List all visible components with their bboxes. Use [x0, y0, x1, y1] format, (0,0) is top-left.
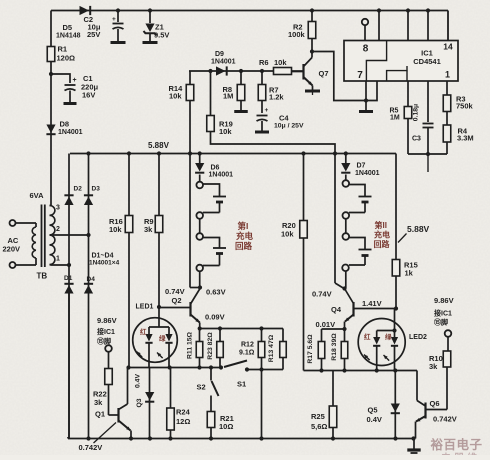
svg-text:R17 5.6Ω: R17 5.6Ω	[307, 334, 314, 364]
svg-text:9.1Ω: 9.1Ω	[239, 350, 255, 357]
svg-text:接IC1: 接IC1	[97, 327, 115, 336]
svg-text:D9: D9	[215, 51, 224, 58]
svg-text:充电: 充电	[236, 231, 254, 241]
svg-text:1N4001: 1N4001	[355, 170, 380, 177]
svg-text:1N4001: 1N4001	[209, 172, 234, 179]
svg-text:接IC1: 接IC1	[434, 309, 452, 318]
svg-text:R6: R6	[259, 58, 269, 67]
svg-text:1.2k: 1.2k	[269, 93, 284, 102]
svg-text:3: 3	[56, 205, 60, 212]
svg-text:10k: 10k	[274, 58, 287, 67]
svg-text:0.4V: 0.4V	[135, 374, 142, 388]
svg-text:回路: 回路	[374, 239, 391, 249]
svg-text:10μ / 25V: 10μ / 25V	[274, 123, 304, 130]
svg-text:3k: 3k	[144, 225, 153, 234]
svg-text:2: 2	[56, 226, 60, 233]
svg-text:D6: D6	[211, 165, 220, 172]
svg-text:红: 红	[140, 327, 147, 336]
svg-text:C3: C3	[412, 136, 421, 143]
svg-text:LED2: LED2	[409, 334, 427, 341]
svg-text:R12: R12	[241, 342, 254, 349]
svg-text:10Ω: 10Ω	[219, 422, 233, 431]
svg-text:D5: D5	[63, 23, 73, 32]
svg-text:+: +	[112, 16, 116, 23]
svg-text:14: 14	[443, 42, 453, 52]
svg-text:0.09V: 0.09V	[205, 313, 225, 322]
svg-text:+: +	[73, 77, 77, 84]
svg-text:3k: 3k	[429, 362, 438, 371]
svg-text:D4: D4	[87, 276, 96, 283]
svg-text:10k: 10k	[169, 92, 182, 101]
svg-text:第I: 第I	[238, 221, 249, 231]
svg-text:120Ω: 120Ω	[57, 54, 76, 63]
svg-text:220V: 220V	[3, 245, 21, 254]
svg-text:R23 82Ω: R23 82Ω	[207, 332, 214, 360]
svg-text:8: 8	[363, 44, 369, 55]
svg-text:CD4541: CD4541	[413, 57, 441, 66]
svg-text:Q4: Q4	[331, 305, 342, 314]
svg-text:⑮脚: ⑮脚	[97, 337, 111, 346]
svg-text:6VA: 6VA	[30, 191, 45, 200]
svg-text:红: 红	[364, 332, 371, 341]
svg-text:R11 15Ω: R11 15Ω	[187, 331, 194, 359]
svg-text:1.41V: 1.41V	[362, 299, 382, 308]
svg-text:0.742V: 0.742V	[433, 415, 457, 424]
svg-text:⑮脚: ⑮脚	[434, 318, 448, 327]
svg-text:绿: 绿	[159, 334, 166, 343]
svg-text:12Ω: 12Ω	[176, 417, 190, 426]
svg-text:1M: 1M	[390, 115, 400, 122]
svg-text:1N4001×4: 1N4001×4	[89, 260, 120, 267]
svg-text:3.3M: 3.3M	[457, 134, 474, 143]
svg-text:Q6: Q6	[430, 399, 440, 408]
svg-text:R25: R25	[311, 412, 325, 421]
svg-text:D1~D4: D1~D4	[92, 253, 114, 260]
svg-text:1: 1	[445, 70, 450, 80]
svg-text:R13 47Ω: R13 47Ω	[268, 334, 275, 362]
svg-text:10k: 10k	[109, 225, 122, 234]
svg-text:7: 7	[357, 70, 363, 81]
svg-text:裕百电子: 裕百电子	[431, 437, 483, 452]
svg-text:第II: 第II	[375, 220, 387, 230]
svg-text:1: 1	[56, 256, 60, 263]
svg-text:5,6Ω: 5,6Ω	[311, 422, 327, 431]
svg-text:R5: R5	[390, 108, 399, 115]
svg-text:0.63V: 0.63V	[206, 288, 226, 297]
svg-text:S1: S1	[237, 380, 246, 389]
svg-text:回路: 回路	[235, 241, 253, 251]
svg-text:Q3: Q3	[136, 398, 143, 407]
svg-text:+: +	[265, 107, 269, 114]
svg-text:16V: 16V	[82, 91, 95, 100]
svg-text:5.88V: 5.88V	[407, 224, 430, 234]
svg-text:0.4V: 0.4V	[367, 415, 382, 424]
svg-text:0.18μ: 0.18μ	[413, 104, 420, 121]
svg-text:R1: R1	[58, 45, 68, 54]
svg-text:R24: R24	[176, 408, 191, 417]
svg-text:S2: S2	[197, 383, 206, 392]
svg-text:1N4148: 1N4148	[56, 33, 81, 40]
svg-text:TB: TB	[37, 272, 48, 281]
svg-text:D2: D2	[74, 186, 83, 193]
svg-text:1M: 1M	[223, 92, 233, 101]
svg-text:750k: 750k	[456, 102, 474, 111]
svg-text:D3: D3	[92, 186, 101, 193]
svg-text:0.742V: 0.742V	[79, 443, 103, 452]
svg-text:1k: 1k	[405, 269, 414, 278]
svg-text:C4: C4	[279, 114, 289, 123]
svg-text:25V: 25V	[87, 30, 100, 39]
svg-text:0.01V: 0.01V	[316, 320, 336, 329]
svg-text:10k: 10k	[281, 230, 294, 239]
svg-text:D8: D8	[60, 120, 70, 129]
svg-text:0.74V: 0.74V	[165, 287, 185, 296]
svg-text:100k: 100k	[288, 30, 306, 39]
svg-text:LED1: LED1	[136, 304, 154, 311]
svg-text:D1: D1	[64, 275, 73, 282]
svg-text:9.86V: 9.86V	[97, 316, 117, 325]
svg-text:9.86V: 9.86V	[434, 296, 454, 305]
svg-text:3k: 3k	[94, 398, 103, 407]
svg-text:1N4001: 1N4001	[58, 129, 83, 136]
svg-text:充电: 充电	[374, 230, 390, 240]
svg-text:10k: 10k	[219, 127, 232, 136]
svg-text:R18 39Ω: R18 39Ω	[331, 333, 338, 361]
svg-text:Q2: Q2	[172, 296, 182, 305]
svg-text:1N4001: 1N4001	[211, 59, 236, 66]
svg-text:0.74V: 0.74V	[312, 290, 332, 299]
svg-text:Q1: Q1	[95, 410, 105, 419]
svg-text:5.88V: 5.88V	[148, 141, 170, 150]
svg-text:绿: 绿	[385, 332, 392, 341]
svg-text:D7: D7	[357, 163, 366, 170]
svg-text:Q5: Q5	[368, 406, 378, 415]
svg-text:9.5V: 9.5V	[154, 31, 169, 40]
svg-text:Q7: Q7	[319, 69, 329, 78]
